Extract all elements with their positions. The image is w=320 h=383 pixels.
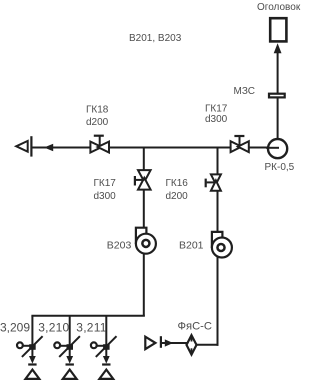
valve GK18 bowtie (90, 142, 109, 153)
arrowhead into stack head (274, 43, 282, 53)
fan B201 hub (217, 244, 224, 251)
regulator RK-0,5 circle (268, 139, 287, 158)
wire into circle center (266, 147, 279, 149)
filter FyaS-S diamond (187, 335, 197, 354)
svg-text:ФяС-С: ФяС-С (178, 321, 212, 333)
svg-text:d200: d200 (86, 117, 109, 128)
fan B203 volute (136, 228, 147, 244)
flow arrowhead (pointing right, to filter) (165, 339, 173, 346)
svg-text:d300: d300 (94, 191, 117, 202)
svg-text:Оголовок: Оголовок (257, 2, 301, 13)
svg-text:ГК18: ГК18 (86, 104, 109, 115)
valve GK17 (main line) bowtie (231, 141, 249, 152)
damper 3,210 leg (59, 316, 80, 357)
svg-text:3,209: 3,209 (0, 320, 30, 334)
valve GK17 (left branch) handle (136, 179, 145, 181)
svg-text:ГК17: ГК17 (205, 103, 228, 114)
wire right branch valve-to-fan (217, 191, 219, 233)
svg-text:ГК16: ГК16 (166, 178, 189, 189)
damper 3,209 blade blob (29, 344, 36, 350)
damper 3,210 end arrowhead (66, 356, 73, 364)
fan B203 hub (142, 240, 149, 247)
svg-text:МЗС: МЗС (234, 86, 255, 97)
damper 3,211 leg (96, 316, 117, 357)
wire left branch valve-to-fan (143, 190, 145, 229)
wire stack riser (circle top to MZS) (277, 94, 279, 139)
wire stack riser (MZS to arrow) (277, 49, 279, 93)
svg-text:РК-0,5: РК-0,5 (265, 162, 295, 173)
wire left branch fan-to-header (143, 250, 145, 317)
filter internal line (191, 335, 193, 341)
svg-text:3,210: 3,210 (38, 320, 69, 334)
damper 3,209 room triangle (26, 370, 40, 379)
damper 3,209 end arrowhead (29, 356, 36, 364)
wire bottom-left header (31, 315, 144, 317)
damper 3,210 blade blob (67, 344, 74, 350)
svg-text:d300: d300 (205, 114, 228, 125)
inlet terminal bar (160, 336, 162, 348)
node left outlet open triangle (16, 141, 28, 152)
damper 3,211 blade blob (103, 344, 110, 350)
wire right branch fan-to-corner (217, 254, 219, 346)
svg-text:В203: В203 (107, 239, 132, 251)
wire bottom-right horizontal to filter (162, 342, 188, 344)
valve GK16 (right branch) body (211, 174, 221, 190)
MZS flat rectangle (269, 94, 285, 98)
svg-text:В201, В203: В201, В203 (129, 33, 182, 44)
damper 3,209 leg (22, 316, 43, 357)
node left outlet terminal bar (30, 136, 32, 156)
wire right branch vertical (to valve GK16) (217, 148, 219, 176)
damper 3,211 end arrowhead (103, 356, 110, 364)
svg-text:В201: В201 (179, 239, 204, 251)
valve GK16 handle (207, 181, 216, 183)
wire filter-to-corner horizontal (195, 344, 219, 346)
valve GK17 (main line) actuator bar (234, 135, 244, 137)
fan B201 circle (212, 238, 232, 258)
stack head rectangle (Ogolovok) (270, 18, 286, 41)
damper 3,210 actuator circle (54, 342, 60, 348)
damper 3,211 room triangle (99, 370, 113, 379)
svg-text:3,211: 3,211 (76, 320, 106, 334)
svg-text:ГК17: ГК17 (94, 178, 117, 189)
damper 3,210 room triangle (63, 370, 77, 379)
inlet open triangle (bottom right) (145, 337, 155, 349)
wire left branch vertical (to valve GK17) (143, 148, 145, 171)
wire main horizontal line (33, 147, 280, 149)
flow arrowhead on main line (pointing left) (44, 144, 53, 151)
svg-text:d200: d200 (166, 191, 189, 202)
valve GK18 actuator stem (99, 136, 101, 147)
fan B201 volute (212, 232, 223, 248)
valve GK17 (main line) actuator stem (239, 137, 241, 148)
damper 3,211 actuator circle (91, 342, 97, 348)
valve GK17 (left branch) body (138, 170, 151, 190)
damper 3,209 actuator circle (17, 342, 23, 348)
valve GK18 actuator bar (94, 135, 104, 137)
fan B203 circle (136, 234, 156, 254)
